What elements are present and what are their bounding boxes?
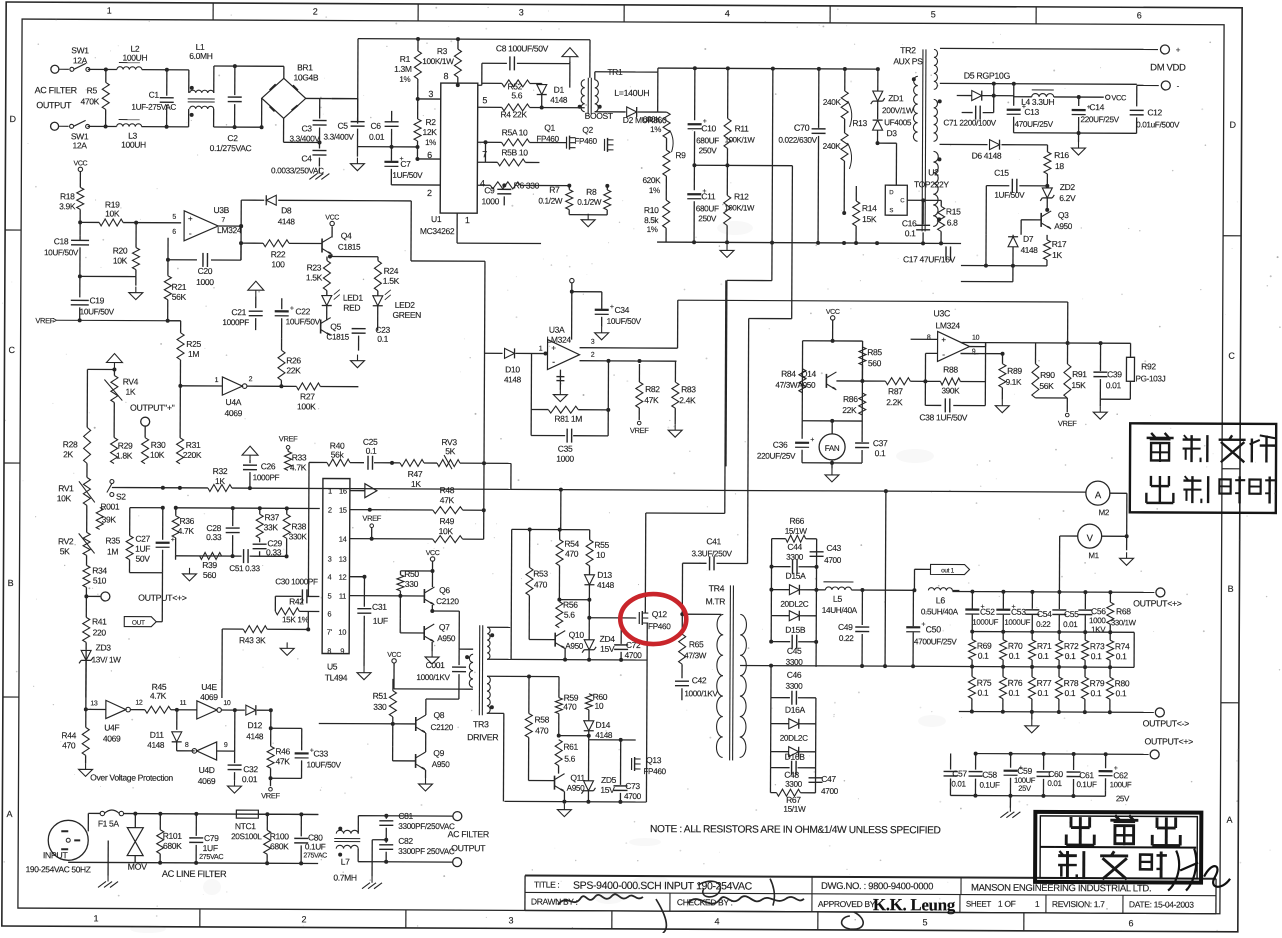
svg-text:AUX PS: AUX PS xyxy=(893,56,923,66)
svg-text:4069: 4069 xyxy=(224,408,242,418)
svg-text:OUTPUT<->: OUTPUT<-> xyxy=(1143,718,1189,728)
svg-text:APPROVED BY: APPROVED BY xyxy=(818,899,876,909)
svg-text:AC FILTER: AC FILTER xyxy=(35,85,78,95)
svg-text:0.33: 0.33 xyxy=(206,532,222,542)
svg-text:10: 10 xyxy=(223,700,231,707)
svg-text:3300PF/250VAC: 3300PF/250VAC xyxy=(398,822,455,831)
svg-text:C58: C58 xyxy=(982,770,997,780)
svg-text:2.2K: 2.2K xyxy=(886,397,903,407)
svg-text:M1: M1 xyxy=(1088,551,1099,560)
svg-text:SW1: SW1 xyxy=(71,45,89,55)
svg-text:R41: R41 xyxy=(92,616,107,626)
svg-text:1%: 1% xyxy=(649,186,660,195)
svg-text:ZD1: ZD1 xyxy=(888,93,904,103)
svg-text:6.8: 6.8 xyxy=(947,217,958,227)
svg-text:C54: C54 xyxy=(1037,609,1052,619)
svg-text:15/1W: 15/1W xyxy=(785,527,808,536)
svg-text:5.6: 5.6 xyxy=(564,610,575,620)
svg-text:220K: 220K xyxy=(183,450,202,460)
svg-text:2: 2 xyxy=(313,6,318,16)
svg-text:L6: L6 xyxy=(936,595,946,605)
svg-text:C52: C52 xyxy=(980,607,995,617)
svg-text:R88: R88 xyxy=(943,364,958,374)
svg-text:3.9K: 3.9K xyxy=(59,201,76,211)
svg-text:RV2: RV2 xyxy=(58,536,74,546)
svg-text:56K: 56K xyxy=(1039,381,1054,391)
svg-text:C57: C57 xyxy=(952,768,967,778)
svg-text:22K: 22K xyxy=(286,365,301,375)
svg-text:5: 5 xyxy=(172,214,176,221)
svg-text:D16B: D16B xyxy=(785,752,806,762)
svg-text:NOTE : ALL RESISTORS ARE IN OH: NOTE : ALL RESISTORS ARE IN OHM&1/4W UNL… xyxy=(650,824,941,836)
svg-text:C59: C59 xyxy=(1017,766,1032,776)
svg-text:4069: 4069 xyxy=(198,776,216,786)
svg-text:1UF: 1UF xyxy=(135,544,150,554)
svg-text:C45: C45 xyxy=(787,646,802,656)
svg-text:D10: D10 xyxy=(505,364,520,374)
svg-text:8: 8 xyxy=(185,742,189,749)
svg-text:R89: R89 xyxy=(1007,366,1022,376)
svg-text:LM324: LM324 xyxy=(546,335,571,345)
svg-text:5K: 5K xyxy=(60,546,70,556)
svg-text:1000PF: 1000PF xyxy=(253,473,280,482)
svg-text:D14: D14 xyxy=(595,720,610,730)
svg-text:+: + xyxy=(810,437,814,444)
svg-text:0.01: 0.01 xyxy=(242,774,258,784)
svg-text:1: 1 xyxy=(539,346,543,353)
svg-text:C17 47UF/16V: C17 47UF/16V xyxy=(903,254,956,264)
svg-text:15K 1%: 15K 1% xyxy=(282,615,309,624)
svg-text:0.1: 0.1 xyxy=(875,448,886,458)
svg-text:C71 2200/100V: C71 2200/100V xyxy=(943,118,996,127)
svg-text:TOP222Y: TOP222Y xyxy=(914,179,949,189)
svg-text:D15B: D15B xyxy=(785,625,806,635)
svg-text:5: 5 xyxy=(923,917,928,927)
svg-text:1K: 1K xyxy=(125,387,135,397)
svg-text:1: 1 xyxy=(107,5,112,15)
svg-text:R79: R79 xyxy=(1090,678,1105,688)
svg-text:1M: 1M xyxy=(188,349,199,359)
svg-text:C82: C82 xyxy=(398,836,413,846)
svg-text:47K: 47K xyxy=(276,756,291,766)
svg-text:C21: C21 xyxy=(231,307,246,317)
svg-text:C1815: C1815 xyxy=(326,333,349,342)
svg-text:R34: R34 xyxy=(92,565,107,575)
svg-text:R50: R50 xyxy=(404,569,419,579)
svg-text:15: 15 xyxy=(339,506,347,515)
svg-text:C51 0.33: C51 0.33 xyxy=(229,564,260,573)
svg-text:13: 13 xyxy=(90,700,98,707)
svg-text:1.5K: 1.5K xyxy=(383,276,400,286)
svg-text:OUTPUT<+>: OUTPUT<+> xyxy=(1133,598,1182,608)
svg-text:R78: R78 xyxy=(1064,678,1079,688)
svg-text:Q5: Q5 xyxy=(330,322,341,332)
svg-text:R1: R1 xyxy=(400,54,411,64)
svg-text:3300: 3300 xyxy=(785,780,803,789)
svg-text:+: + xyxy=(171,537,175,544)
svg-text:15V: 15V xyxy=(600,644,615,654)
svg-text:F1 5A: F1 5A xyxy=(98,818,120,828)
svg-text:C35: C35 xyxy=(558,444,573,454)
svg-text:U4A: U4A xyxy=(226,397,242,407)
svg-text:R81 1M: R81 1M xyxy=(554,414,582,424)
svg-text:6.2V: 6.2V xyxy=(1059,193,1076,203)
svg-text:FP460: FP460 xyxy=(643,767,666,776)
svg-text:1: 1 xyxy=(94,913,99,923)
svg-text:A: A xyxy=(7,809,13,819)
svg-text:8: 8 xyxy=(927,334,931,341)
svg-text:1UF/50V: 1UF/50V xyxy=(994,191,1025,200)
svg-text:C14: C14 xyxy=(1089,102,1104,112)
svg-text:S2: S2 xyxy=(116,492,126,502)
svg-text:+: + xyxy=(1176,46,1181,55)
svg-text:FAN: FAN xyxy=(825,444,840,453)
svg-text:A950: A950 xyxy=(565,642,584,651)
svg-text:R17: R17 xyxy=(1052,239,1067,249)
svg-text:BR1: BR1 xyxy=(297,62,313,72)
svg-text:R53: R53 xyxy=(533,568,548,578)
svg-text:4: 4 xyxy=(328,573,332,582)
svg-text:50V: 50V xyxy=(135,554,150,564)
svg-text:250V: 250V xyxy=(699,146,718,155)
svg-text:C47: C47 xyxy=(821,774,836,784)
svg-text:330K: 330K xyxy=(289,532,308,541)
svg-text:R49: R49 xyxy=(439,516,454,526)
svg-text:R87: R87 xyxy=(888,386,903,396)
svg-text:10G4B: 10G4B xyxy=(293,72,318,82)
svg-text:0.1: 0.1 xyxy=(377,334,388,344)
svg-text:R101: R101 xyxy=(163,831,183,841)
svg-text:V: V xyxy=(1087,533,1094,544)
svg-text:100UH: 100UH xyxy=(123,53,148,63)
svg-text:4069: 4069 xyxy=(200,692,218,702)
svg-text:C2120: C2120 xyxy=(436,597,459,606)
svg-text:R001: R001 xyxy=(100,501,120,511)
svg-text:REVISION: 1.7: REVISION: 1.7 xyxy=(1052,899,1105,909)
svg-text:5: 5 xyxy=(327,592,331,601)
svg-text:C: C xyxy=(8,345,15,355)
svg-text:VCC: VCC xyxy=(1111,93,1127,102)
svg-text:R58: R58 xyxy=(535,715,550,725)
svg-text:R5B 10: R5B 10 xyxy=(501,147,528,157)
svg-text:R77: R77 xyxy=(1037,678,1052,688)
svg-text:4148: 4148 xyxy=(504,375,522,384)
svg-text:U4F: U4F xyxy=(104,722,119,732)
svg-text:R56: R56 xyxy=(563,600,578,610)
svg-text:Q8: Q8 xyxy=(433,710,444,720)
svg-text:R46: R46 xyxy=(275,746,290,756)
svg-text:D5 RGP10G: D5 RGP10G xyxy=(964,71,1011,81)
svg-text:10: 10 xyxy=(338,628,346,637)
svg-text:R3: R3 xyxy=(437,46,448,56)
svg-text:R70: R70 xyxy=(1008,641,1023,651)
svg-text:190-254VAC 50HZ: 190-254VAC 50HZ xyxy=(26,864,91,874)
svg-text:1000: 1000 xyxy=(556,454,574,464)
svg-text:9: 9 xyxy=(340,647,344,656)
svg-text:5.6: 5.6 xyxy=(564,754,575,764)
svg-text:0.1: 0.1 xyxy=(1065,688,1076,698)
svg-text:C44: C44 xyxy=(787,542,802,552)
svg-text:14UH/40A: 14UH/40A xyxy=(822,606,858,615)
svg-text:C12: C12 xyxy=(1147,107,1162,117)
svg-text:R67: R67 xyxy=(786,795,801,805)
svg-text:+: + xyxy=(610,304,614,311)
svg-text:-: - xyxy=(189,228,192,238)
svg-text:1.3M: 1.3M xyxy=(394,64,412,74)
svg-text:A: A xyxy=(1095,490,1102,501)
svg-text:7: 7 xyxy=(221,217,225,224)
svg-text:14: 14 xyxy=(339,535,347,544)
svg-text:C60: C60 xyxy=(1048,769,1063,779)
svg-text:LED2: LED2 xyxy=(395,300,416,310)
svg-text:R26: R26 xyxy=(286,355,301,365)
svg-text:2: 2 xyxy=(591,352,595,359)
svg-text:6.0MH: 6.0MH xyxy=(189,51,213,61)
svg-text:0.1: 0.1 xyxy=(1009,651,1020,661)
svg-text:680UF: 680UF xyxy=(696,136,719,145)
svg-text:1: 1 xyxy=(328,487,332,496)
svg-text:R55: R55 xyxy=(594,540,609,550)
svg-text:L5: L5 xyxy=(833,594,843,604)
svg-text:4148: 4148 xyxy=(597,581,615,590)
svg-text:VREF: VREF xyxy=(630,426,649,435)
svg-text:OUT: OUT xyxy=(132,620,145,627)
svg-text:16: 16 xyxy=(339,487,347,496)
svg-text:0.1: 0.1 xyxy=(978,688,989,698)
svg-text:1UF: 1UF xyxy=(373,616,388,626)
svg-text:6: 6 xyxy=(1137,10,1142,20)
svg-text:3: 3 xyxy=(328,555,332,564)
svg-text:R21: R21 xyxy=(172,282,187,292)
svg-text:U4E: U4E xyxy=(201,682,217,692)
svg-text:R15: R15 xyxy=(946,206,961,216)
svg-text:1%: 1% xyxy=(399,75,410,84)
svg-text:620K: 620K xyxy=(642,176,661,185)
svg-text:+: + xyxy=(551,344,556,353)
svg-text:R31: R31 xyxy=(186,440,201,450)
svg-text:C2120: C2120 xyxy=(431,723,454,732)
svg-text:1.5K: 1.5K xyxy=(306,272,323,282)
svg-text:LED1: LED1 xyxy=(343,293,364,303)
svg-text:-: - xyxy=(942,349,945,359)
svg-text:1UF/50V: 1UF/50V xyxy=(392,171,423,180)
svg-text:0.1: 0.1 xyxy=(1038,688,1049,698)
svg-text:1%: 1% xyxy=(425,138,436,147)
svg-text:10UF/50V: 10UF/50V xyxy=(607,317,642,326)
svg-text:C49: C49 xyxy=(838,622,853,632)
svg-text:R85: R85 xyxy=(867,347,882,357)
svg-text:VREF: VREF xyxy=(1058,419,1077,428)
svg-text:LM324: LM324 xyxy=(936,320,961,330)
svg-text:D8: D8 xyxy=(281,205,292,215)
svg-text:100K/1W: 100K/1W xyxy=(422,57,454,66)
svg-text:C15: C15 xyxy=(994,168,1009,178)
svg-text:RV1: RV1 xyxy=(58,483,74,493)
svg-text:100: 100 xyxy=(271,259,285,269)
svg-text:M.TR: M.TR xyxy=(706,596,726,606)
svg-text:680UF: 680UF xyxy=(696,204,719,213)
svg-text:R84: R84 xyxy=(781,369,796,379)
svg-text:R11: R11 xyxy=(735,123,750,133)
svg-text:R24: R24 xyxy=(384,266,399,276)
svg-text:U5: U5 xyxy=(327,662,338,672)
svg-text:R90: R90 xyxy=(1040,370,1055,380)
svg-text:R47: R47 xyxy=(408,469,423,479)
svg-text:100K: 100K xyxy=(297,401,316,411)
svg-text:0.01: 0.01 xyxy=(1047,779,1062,788)
svg-text:6: 6 xyxy=(327,610,331,619)
svg-text:R28: R28 xyxy=(63,439,78,449)
svg-text:MANSON ENGINEERING INDUSTRIA: MANSON ENGINEERING INDUSTRIAL LTD. xyxy=(971,883,1151,895)
svg-text:0.1/2W: 0.1/2W xyxy=(577,198,602,207)
svg-text:4.7K: 4.7K xyxy=(150,691,167,701)
svg-text:Q7: Q7 xyxy=(439,622,450,632)
svg-text:R36: R36 xyxy=(179,516,194,526)
svg-text:1 OF: 1 OF xyxy=(998,899,1016,909)
svg-text:U2: U2 xyxy=(928,167,939,177)
svg-text:R80: R80 xyxy=(1115,678,1130,688)
svg-text:10UF/50V: 10UF/50V xyxy=(307,760,342,769)
svg-text:20DL2C: 20DL2C xyxy=(780,600,808,609)
svg-text:12: 12 xyxy=(339,573,347,582)
svg-text:680K: 680K xyxy=(163,841,182,851)
svg-text:10K: 10K xyxy=(57,493,72,503)
svg-text:C38 1UF/50V: C38 1UF/50V xyxy=(919,412,967,422)
svg-text:1%: 1% xyxy=(647,225,658,234)
svg-text:C10: C10 xyxy=(701,123,716,133)
svg-text:275VAC: 275VAC xyxy=(303,852,327,859)
svg-text:0.1UF: 0.1UF xyxy=(979,781,1000,790)
svg-text:0.1: 0.1 xyxy=(978,651,989,661)
svg-text:1000PF: 1000PF xyxy=(222,318,249,327)
svg-text:0.01: 0.01 xyxy=(1063,620,1078,629)
svg-text:ZD2: ZD2 xyxy=(1060,182,1076,192)
svg-text:1: 1 xyxy=(1035,899,1040,909)
svg-text:D11: D11 xyxy=(150,730,165,740)
svg-text:47/3W: 47/3W xyxy=(684,651,707,660)
svg-text:0.1UF: 0.1UF xyxy=(305,842,326,851)
svg-text:47K: 47K xyxy=(440,495,455,505)
svg-text:C62: C62 xyxy=(1113,770,1128,780)
svg-text:0.1: 0.1 xyxy=(905,228,916,238)
svg-text:15V: 15V xyxy=(600,785,615,795)
svg-text:1000: 1000 xyxy=(1089,616,1106,625)
svg-text:7: 7 xyxy=(482,149,487,159)
svg-text:10K: 10K xyxy=(113,256,128,266)
svg-text:240K: 240K xyxy=(823,142,842,151)
svg-text:C36: C36 xyxy=(773,440,788,450)
svg-text:0.01uF/500V: 0.01uF/500V xyxy=(1136,120,1180,129)
svg-text:Q9: Q9 xyxy=(433,748,444,758)
svg-text:Q13: Q13 xyxy=(646,755,662,765)
svg-text:15/1W: 15/1W xyxy=(783,805,806,814)
svg-text:5.6: 5.6 xyxy=(511,90,522,100)
svg-text:11: 11 xyxy=(339,592,346,601)
svg-text:3300: 3300 xyxy=(786,553,804,562)
svg-text:ZD3: ZD3 xyxy=(96,642,112,652)
svg-text:D6 4148: D6 4148 xyxy=(972,151,1002,161)
svg-text:C001: C001 xyxy=(426,660,446,670)
svg-text:330: 330 xyxy=(405,579,419,589)
svg-text:0.1/2W: 0.1/2W xyxy=(538,197,563,206)
svg-text:R7: R7 xyxy=(549,185,560,195)
svg-text:10K: 10K xyxy=(439,526,454,536)
svg-text:R2: R2 xyxy=(426,117,437,127)
svg-text:0.22: 0.22 xyxy=(1036,620,1051,629)
svg-text:L4 3.3UH: L4 3.3UH xyxy=(1021,97,1054,107)
svg-text:1: 1 xyxy=(215,377,219,384)
svg-text:250V: 250V xyxy=(698,214,717,223)
svg-text:L7: L7 xyxy=(341,857,350,867)
svg-text:C42: C42 xyxy=(692,675,707,685)
svg-text:R43 3K: R43 3K xyxy=(239,635,266,645)
svg-text:680K: 680K xyxy=(643,115,662,124)
svg-text:6: 6 xyxy=(1128,918,1133,928)
svg-text:4148: 4148 xyxy=(1021,246,1039,255)
svg-text:11: 11 xyxy=(180,700,187,707)
svg-text:L=140UH: L=140UH xyxy=(614,88,649,98)
svg-text:A: A xyxy=(1226,815,1232,825)
svg-text:220: 220 xyxy=(93,627,107,637)
svg-text:680K: 680K xyxy=(270,841,289,851)
svg-text:VCC: VCC xyxy=(426,550,440,557)
svg-text:C55: C55 xyxy=(1064,609,1079,619)
svg-text:R75: R75 xyxy=(977,678,992,688)
svg-text:R82: R82 xyxy=(645,384,660,394)
svg-text:C41: C41 xyxy=(706,536,721,546)
svg-text:1000UF: 1000UF xyxy=(972,618,998,627)
svg-text:C3: C3 xyxy=(301,123,312,133)
svg-text:R22: R22 xyxy=(271,249,286,259)
svg-text:4700UF/25V: 4700UF/25V xyxy=(914,637,957,646)
svg-text:15K: 15K xyxy=(862,214,877,224)
svg-text:C18: C18 xyxy=(54,236,69,246)
svg-text:3: 3 xyxy=(519,7,524,17)
svg-text:5K: 5K xyxy=(445,446,455,456)
svg-text:D7: D7 xyxy=(1023,234,1034,244)
svg-text:0.01: 0.01 xyxy=(951,779,966,788)
svg-text:D13: D13 xyxy=(597,570,612,580)
svg-text:7': 7' xyxy=(327,628,333,637)
svg-text:C8 100UF/50V: C8 100UF/50V xyxy=(496,43,549,53)
svg-text:4148: 4148 xyxy=(278,217,296,226)
svg-text:D: D xyxy=(889,190,894,196)
svg-text:C79: C79 xyxy=(204,833,219,843)
svg-text:R69: R69 xyxy=(977,641,992,651)
svg-text:C20: C20 xyxy=(198,266,213,276)
svg-text:22K: 22K xyxy=(842,405,857,415)
svg-text:A950: A950 xyxy=(432,760,451,769)
svg-text:OUTPUT: OUTPUT xyxy=(451,843,486,853)
svg-text:C81: C81 xyxy=(398,811,413,821)
svg-text:DM VDD: DM VDD xyxy=(1150,62,1186,73)
svg-text:220UF/25V: 220UF/25V xyxy=(1080,115,1119,124)
svg-text:R37: R37 xyxy=(264,512,279,522)
svg-text:C80: C80 xyxy=(308,832,323,842)
svg-text:200V/1W: 200V/1W xyxy=(882,106,914,115)
svg-text:4.7K: 4.7K xyxy=(178,526,195,536)
svg-text:D3: D3 xyxy=(886,128,897,138)
svg-text:OUTPUT<+>: OUTPUT<+> xyxy=(1144,736,1193,746)
svg-text:2.4K: 2.4K xyxy=(679,395,696,405)
svg-text:470: 470 xyxy=(535,726,549,736)
svg-text:10: 10 xyxy=(972,335,980,342)
svg-text:SHEET: SHEET xyxy=(966,900,991,909)
svg-text:R18: R18 xyxy=(60,191,75,201)
svg-text:0.1UF: 0.1UF xyxy=(1076,780,1097,789)
svg-text:20DL2C: 20DL2C xyxy=(780,734,808,743)
svg-text:100UF: 100UF xyxy=(1110,780,1132,789)
